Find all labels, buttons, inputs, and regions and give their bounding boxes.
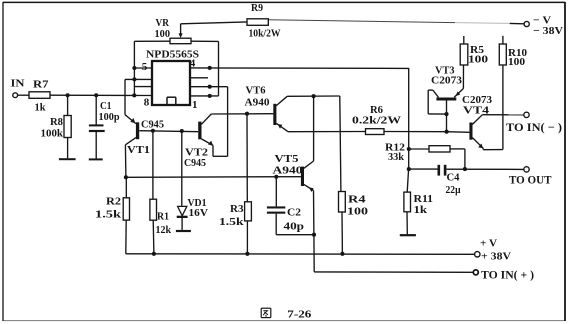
wire pin4 <box>190 67 409 70</box>
label A940 VT6 <box>245 97 270 108</box>
label +V <box>480 237 511 262</box>
label VT3 <box>435 65 455 76</box>
label C945 VT2 <box>184 158 206 169</box>
svg-text:R11: R11 <box>414 194 434 205</box>
svg-text:R2: R2 <box>106 197 121 208</box>
svg-text:C2: C2 <box>287 207 301 218</box>
svg-text:IN: IN <box>11 78 25 90</box>
capacitor C1 <box>89 124 105 132</box>
wire <box>125 177 127 198</box>
label C2073 VT4 <box>462 95 492 106</box>
svg-text:R7: R7 <box>33 79 49 90</box>
label R12 value <box>385 142 405 163</box>
wire <box>135 86 152 88</box>
wire <box>313 96 315 161</box>
svg-text:VR: VR <box>156 18 170 29</box>
label R1 value <box>156 211 172 236</box>
wire <box>406 212 408 234</box>
svg-text:TO IN( − ): TO IN( − ) <box>506 122 562 134</box>
wire TO IN(+) line <box>314 271 473 273</box>
label C2073 VT3 <box>431 75 462 86</box>
resistor R8 <box>64 116 71 138</box>
wire <box>482 114 523 116</box>
node junction pin8 <box>132 93 136 97</box>
caption figure number <box>261 308 312 320</box>
wire <box>313 191 315 235</box>
wire <box>450 148 465 150</box>
ground VD1 <box>176 230 191 232</box>
wire <box>124 145 127 178</box>
wire <box>463 36 465 44</box>
resistor R7 <box>29 92 50 99</box>
wire <box>384 131 447 133</box>
resistor R5 <box>460 44 468 65</box>
label VT5 <box>275 154 299 165</box>
wire <box>180 24 182 34</box>
svg-text:12k: 12k <box>156 225 172 236</box>
wire pin5 <box>134 67 152 69</box>
pin 5 label <box>142 61 148 73</box>
wire <box>211 113 273 115</box>
label IN <box>11 78 25 90</box>
wire <box>287 95 340 97</box>
node junction <box>132 77 136 81</box>
svg-text:10k/2W: 10k/2W <box>249 29 281 40</box>
label C4 value <box>446 172 461 196</box>
resistor R11 <box>404 192 411 212</box>
svg-text:R6: R6 <box>370 105 383 116</box>
resistor R12 <box>429 146 450 152</box>
wire -V rail <box>268 20 509 24</box>
resistor R2 <box>123 198 129 220</box>
label VT1 <box>127 145 150 156</box>
svg-text:VT5: VT5 <box>275 154 299 165</box>
node +38V terminal <box>475 252 480 257</box>
wire VT1 emitter line <box>126 176 301 179</box>
svg-text:100k: 100k <box>41 129 64 140</box>
wire <box>502 65 504 150</box>
svg-text:5: 5 <box>142 61 148 73</box>
svg-text:A940: A940 <box>273 165 303 176</box>
wire <box>152 131 154 199</box>
node TO OUT terminal <box>524 167 529 172</box>
wire <box>50 94 152 96</box>
svg-text:A940: A940 <box>245 97 270 108</box>
wire <box>482 148 484 149</box>
wire <box>409 148 429 150</box>
node junction <box>132 66 136 70</box>
label -V <box>533 15 563 38</box>
wire <box>408 68 410 169</box>
wire <box>483 149 503 151</box>
node junction <box>208 85 212 89</box>
label C945 VT1 <box>141 120 164 131</box>
transistor Q2 VT2 <box>198 114 213 146</box>
wire <box>288 131 366 133</box>
node junction <box>407 147 411 151</box>
wire <box>125 78 152 80</box>
pin 4 label <box>190 58 196 70</box>
wire <box>134 40 170 42</box>
wire <box>341 212 343 254</box>
wire <box>462 65 464 89</box>
resistor R6 <box>366 129 385 135</box>
node junction <box>151 129 155 133</box>
svg-text:100: 100 <box>468 54 488 65</box>
svg-text:TO OUT: TO OUT <box>509 175 552 187</box>
wire <box>409 168 438 170</box>
transistor Q6 VT6 <box>273 96 288 131</box>
capacitor C2 <box>267 206 285 213</box>
wire <box>276 234 314 236</box>
svg-text:C1: C1 <box>100 101 112 112</box>
label R10 value <box>508 48 527 68</box>
node junction <box>274 175 278 179</box>
wire pin1 <box>190 95 219 97</box>
pin 8 label <box>144 97 150 109</box>
label VR value <box>155 18 171 40</box>
label R4 value <box>347 194 368 217</box>
svg-text:100: 100 <box>347 206 368 217</box>
transistor Q4 VT4 <box>469 115 483 149</box>
node junction R8 <box>66 93 70 97</box>
svg-text:R1: R1 <box>157 211 169 222</box>
svg-text:0.2k/2W: 0.2k/2W <box>352 116 402 127</box>
node junction <box>208 66 212 70</box>
svg-text:R8: R8 <box>50 117 63 128</box>
wire +V rail <box>126 253 475 256</box>
svg-text:1: 1 <box>192 99 198 111</box>
transistor Q3 VT3 <box>428 89 463 115</box>
label R2 value <box>95 197 121 221</box>
node junction <box>152 252 156 256</box>
wire <box>152 220 155 254</box>
svg-text:1k: 1k <box>414 205 428 216</box>
node junction <box>124 175 128 179</box>
label R9 value <box>249 3 281 39</box>
wire <box>275 177 277 207</box>
node junction <box>208 94 212 98</box>
svg-text:40p: 40p <box>284 221 305 232</box>
resistor R10 <box>499 44 506 65</box>
node junction <box>445 130 449 134</box>
capacitor C4 <box>438 165 447 176</box>
svg-text:1.5k: 1.5k <box>219 217 244 228</box>
label R5 value <box>468 45 488 66</box>
svg-text:C2073: C2073 <box>462 95 492 106</box>
svg-text:C945: C945 <box>184 158 206 169</box>
transistor Q1 VT1 <box>125 115 139 145</box>
node IN terminal <box>13 93 18 98</box>
wiper arrow VR <box>179 33 183 38</box>
wire <box>181 218 183 230</box>
label NPD5565S <box>146 48 199 60</box>
wire <box>313 235 315 272</box>
svg-text:1.5k: 1.5k <box>95 210 121 221</box>
wire <box>190 77 208 79</box>
svg-text:+ V: + V <box>480 237 497 249</box>
resistor R4 <box>339 192 346 213</box>
ground C1 <box>89 158 103 160</box>
wire <box>246 114 248 202</box>
svg-text:TO IN( + ): TO IN( + ) <box>481 269 534 281</box>
svg-text:22μ: 22μ <box>446 185 461 196</box>
label R11 value <box>414 194 434 216</box>
svg-text:C2073: C2073 <box>431 75 462 86</box>
wire <box>191 40 219 42</box>
potentiometer VR <box>170 38 191 44</box>
svg-text:16V: 16V <box>189 208 209 219</box>
node junction <box>180 129 184 133</box>
wire <box>213 155 228 157</box>
wire <box>464 149 466 169</box>
svg-text:R4: R4 <box>348 194 367 205</box>
pin 1 label <box>192 99 198 111</box>
node junction <box>312 94 316 98</box>
svg-text:VT6: VT6 <box>246 85 266 96</box>
label A940 VT5 <box>273 165 303 176</box>
diode VD1 zener <box>177 206 188 218</box>
svg-text:100: 100 <box>155 29 171 40</box>
label VT4 <box>463 105 490 116</box>
wire <box>124 79 126 114</box>
op-amp U1 NPD5565S box <box>152 61 190 105</box>
label TO IN(+) <box>481 269 534 281</box>
wire <box>510 22 524 24</box>
node junction <box>245 252 249 256</box>
svg-text:1k: 1k <box>35 103 46 114</box>
svg-text:− 38V: − 38V <box>533 25 563 37</box>
svg-text:VT1: VT1 <box>127 145 150 156</box>
resistor R3 <box>245 202 252 221</box>
label TO OUT <box>509 175 552 187</box>
wire <box>275 214 277 235</box>
wire <box>212 145 214 156</box>
label C1 value <box>99 101 120 123</box>
svg-text:R3: R3 <box>230 204 244 215</box>
label VT2 <box>185 147 208 158</box>
wire <box>181 22 247 24</box>
label C2 value <box>284 207 305 232</box>
svg-text:+ 38V: + 38V <box>481 250 511 262</box>
wire <box>340 96 341 191</box>
label R7 value <box>33 79 49 113</box>
node junction <box>463 167 467 171</box>
node junction <box>312 233 316 237</box>
wire <box>502 36 504 44</box>
label R3 value <box>219 204 244 228</box>
label R6 value <box>352 105 402 127</box>
ground R11 <box>400 234 416 236</box>
svg-text:R9: R9 <box>251 3 263 14</box>
wire <box>95 132 97 159</box>
wire <box>125 220 127 254</box>
node junction <box>245 112 249 116</box>
wire <box>67 95 69 115</box>
wire <box>227 87 229 157</box>
wire <box>181 131 183 206</box>
node junction <box>407 167 411 171</box>
wire <box>407 169 408 192</box>
wire <box>218 41 220 96</box>
svg-text:VT2: VT2 <box>185 147 208 158</box>
wire <box>446 100 448 131</box>
wire <box>18 94 29 96</box>
label R8 value <box>41 117 64 139</box>
svg-text:33k: 33k <box>388 152 404 163</box>
node -V terminal <box>524 21 529 26</box>
svg-text:8: 8 <box>144 97 150 109</box>
node junction C1 <box>94 93 98 97</box>
wire <box>95 95 97 124</box>
node TO IN(+) terminal <box>473 270 478 275</box>
svg-text:7-26: 7-26 <box>287 308 312 320</box>
svg-text:100p: 100p <box>99 112 120 123</box>
wire base VT1-VT2 <box>139 131 198 132</box>
label TO IN(-) <box>506 122 562 134</box>
svg-text:100: 100 <box>508 57 525 68</box>
wire <box>190 86 228 88</box>
node TO IN(-) terminal <box>524 112 529 117</box>
wire <box>67 138 69 159</box>
wire <box>446 168 523 170</box>
resistor R9 <box>247 19 268 26</box>
notch U1 <box>167 97 176 105</box>
ground R8 <box>59 158 76 160</box>
svg-text:C4: C4 <box>447 172 461 183</box>
resistor R1 <box>150 199 157 220</box>
node junction <box>340 252 344 256</box>
wire <box>133 41 135 95</box>
node junction <box>444 112 448 116</box>
wire <box>447 131 470 134</box>
transistor Q5 VT5 <box>301 161 314 192</box>
label VT6 <box>246 85 266 96</box>
wire <box>246 221 248 254</box>
label VD1 value <box>188 198 209 219</box>
